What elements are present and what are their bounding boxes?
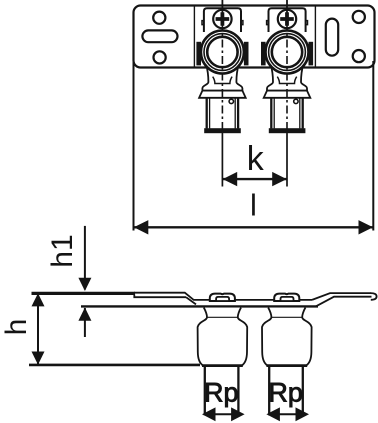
l arrow left (134, 220, 149, 234)
main circle outer (201, 31, 244, 74)
main circle bore (272, 37, 302, 67)
h1 dimension line upper (84, 226, 86, 290)
body outline (198, 308, 248, 366)
socket left line (268, 367, 270, 415)
Rp arrow left (266, 407, 280, 421)
bell below circle (202, 64, 242, 91)
body tab left (196, 42, 201, 66)
plate side: left lower line with step (134, 295, 186, 298)
screw head circle (278, 10, 296, 28)
svg-text:h: h (0, 319, 33, 336)
socket right line (237, 367, 239, 415)
center line dash-dot (221, 23, 223, 134)
bracket ear left (267, 21, 269, 25)
Rp arrow left (202, 407, 216, 421)
emboss boundary line left (193, 6, 195, 67)
sleeve inner right (299, 98, 301, 128)
main circle ring (269, 34, 306, 71)
phillips cross (280, 12, 294, 26)
sleeve bottom rim (204, 128, 241, 133)
sleeve hole (229, 99, 233, 103)
svg-text:l: l (250, 188, 257, 223)
h1 arrow up (78, 308, 91, 321)
svg-text:h1: h1 (46, 234, 79, 267)
phillips cross (216, 12, 230, 26)
center extension solid (286, 134, 288, 187)
sleeve outer right (237, 98, 239, 128)
screw hole bottom-right (353, 50, 365, 62)
Rp dimension line (204, 413, 241, 415)
horizontal slot left (142, 30, 177, 42)
emboss boundary line right (314, 6, 316, 67)
bracket ear right (241, 21, 243, 25)
body mid line (207, 316, 238, 318)
svg-text:k: k (247, 140, 265, 178)
dimension l line (134, 226, 374, 228)
vertical slot right (326, 19, 338, 56)
h arrow up (32, 293, 45, 306)
body mid line (271, 316, 302, 318)
flange trapezoid (264, 91, 311, 98)
main circle bore (207, 37, 237, 67)
plate side: top line slope down (134, 293, 312, 300)
sleeve inner left (273, 98, 275, 128)
Rp dimension line (269, 413, 306, 415)
h1 lower tail (84, 308, 86, 337)
h dimension line (37, 294, 39, 364)
l extension right (372, 61, 374, 231)
side fitting 2 (262, 294, 312, 422)
sleeve outer right (302, 98, 304, 128)
plate side: left thick segment (32, 292, 136, 295)
side fitting 1 (198, 294, 248, 422)
Rp arrow right (296, 407, 310, 421)
screw head circle (213, 10, 231, 28)
h1 arrow down (78, 278, 91, 291)
plate side: middle bottom line (h1 reference) (81, 305, 318, 307)
svg-text:Rp: Rp (268, 378, 303, 408)
body bottom edge (266, 364, 307, 367)
screw dome outline (210, 294, 235, 301)
plate side: up-slope right bottom (316, 297, 372, 307)
sleeve outer left (270, 98, 272, 128)
plate side: right end hook (371, 293, 377, 300)
k arrow right (272, 172, 287, 186)
bracket ear right (306, 21, 308, 25)
sleeve inner right (234, 98, 236, 128)
center extension solid (221, 134, 223, 187)
k arrow left (223, 172, 238, 186)
screw bracket (269, 8, 306, 32)
plate side: bottom slope (186, 297, 196, 304)
screw bracket (204, 8, 241, 32)
bell below circle (267, 64, 307, 91)
main circle outer (266, 31, 309, 74)
h bottom extension line (29, 364, 200, 367)
body bottom edge (202, 364, 243, 367)
h arrow down (32, 352, 45, 365)
sleeve bottom rim (269, 128, 306, 133)
body tab right (244, 42, 249, 66)
bracket ear left (202, 21, 204, 25)
socket left line (204, 367, 206, 415)
body outline (262, 308, 312, 366)
sleeve outer left (206, 98, 208, 128)
body tab left (261, 42, 266, 66)
bell inner cup (277, 77, 296, 84)
l arrow right (359, 220, 374, 234)
screw hole bottom-left (154, 51, 166, 63)
sleeve hole (294, 99, 298, 103)
main circle ring (204, 34, 241, 71)
flange trapezoid (199, 91, 246, 98)
screw head inner (216, 297, 229, 301)
mounting plate outline (134, 6, 375, 68)
screw dome outline (274, 294, 299, 301)
svg-text:Rp: Rp (204, 378, 239, 408)
fitting 1 (left, top view) (196, 0, 248, 187)
Rp arrow right (231, 407, 245, 421)
center line dash-dot (286, 23, 288, 134)
sleeve inner left (209, 98, 211, 128)
bell inner cup (213, 77, 232, 84)
body tab right (309, 42, 314, 66)
screw hole top-right (353, 11, 365, 23)
screw head inner (281, 297, 294, 301)
fitting 2 (right, top view) (261, 0, 313, 187)
dimension k line (222, 178, 287, 180)
l extension left (133, 61, 135, 231)
plate side: up-slope right top (312, 293, 371, 300)
screw hole top-left (153, 12, 165, 24)
socket right line (302, 367, 304, 415)
